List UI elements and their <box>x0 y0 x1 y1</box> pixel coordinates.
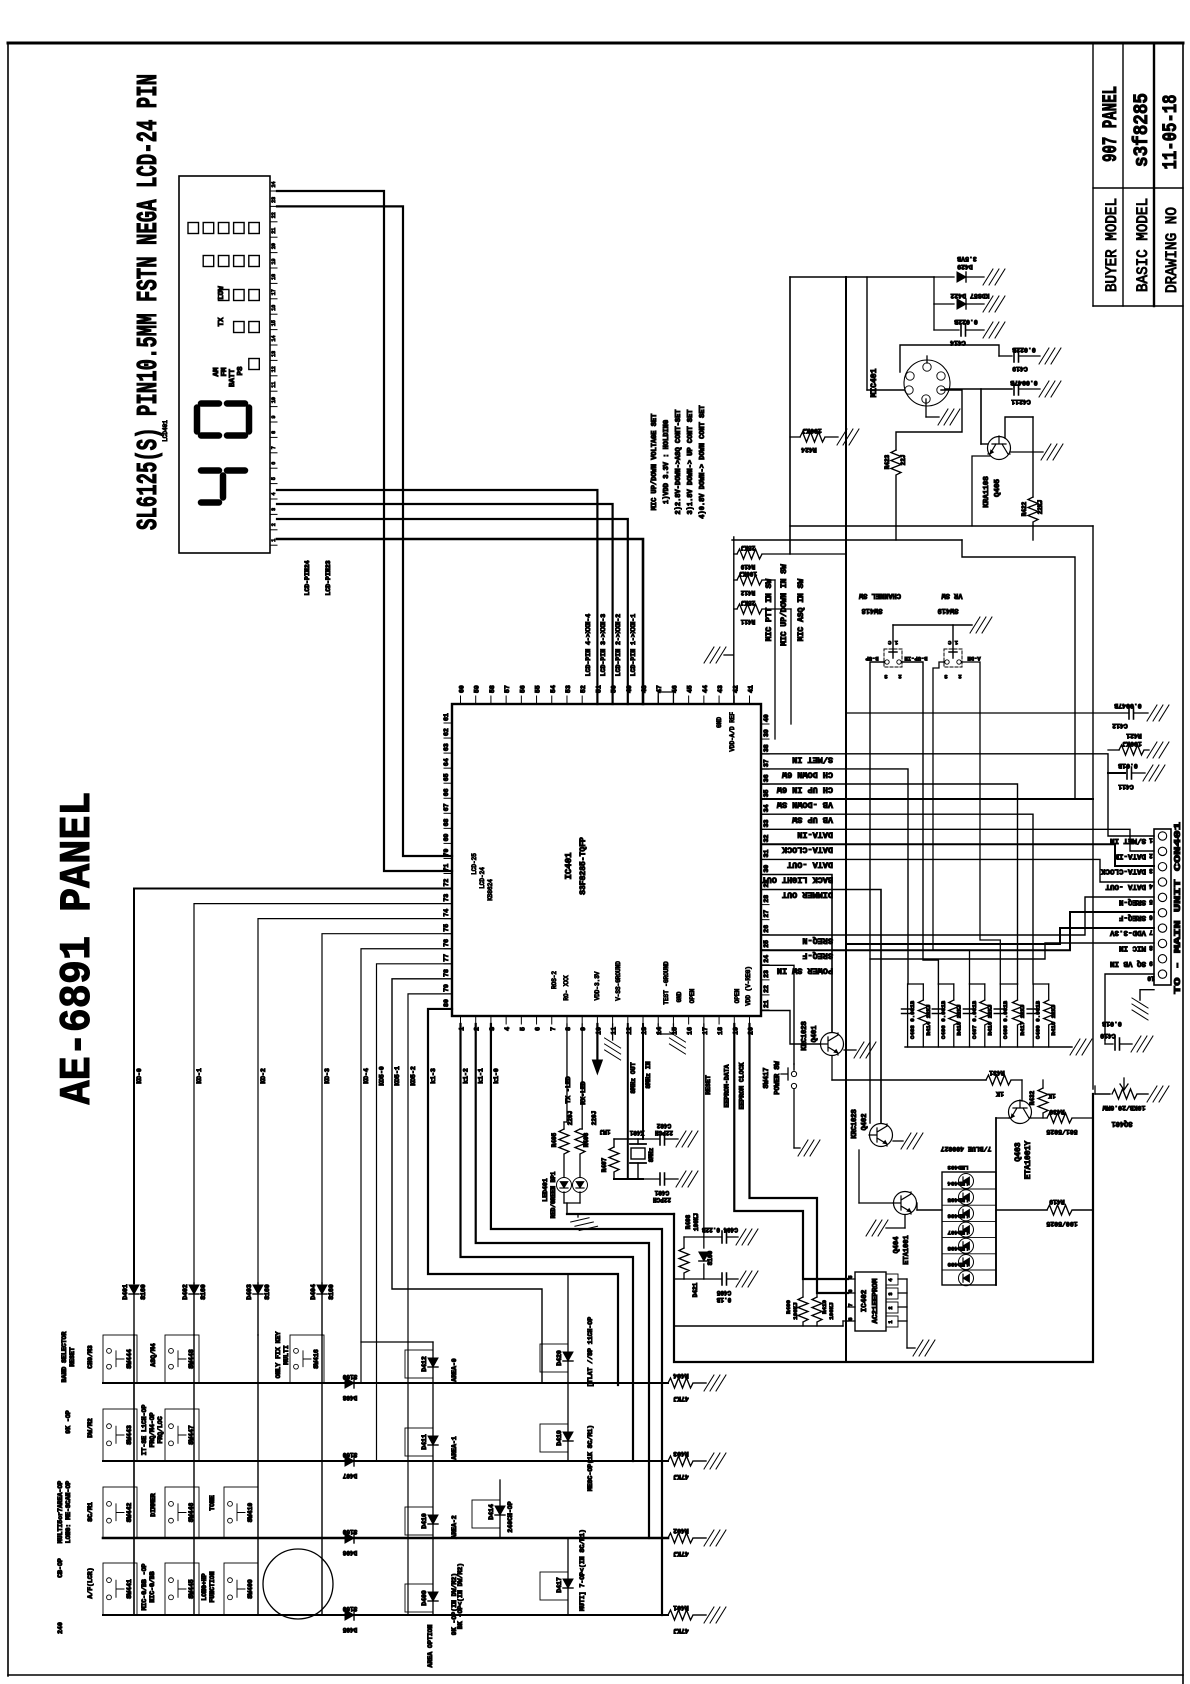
svg-text:24: 24 <box>763 955 770 963</box>
svg-text:100KJ: 100KJ <box>792 1302 799 1319</box>
wire net KO-4 <box>361 949 452 1383</box>
ground <box>983 322 1005 338</box>
svg-text:C401: C401 <box>654 1189 669 1196</box>
title text: buyer model 907 PANEL <box>1100 86 1123 292</box>
svg-text:VDD-3.3V: VDD-3.3V <box>594 971 601 1000</box>
resistor R409 100KJ <box>785 1279 808 1326</box>
labels MIC switch nets <box>765 564 806 646</box>
svg-text:59: 59 <box>474 685 481 693</box>
wire LCD segment line 3 <box>277 519 628 704</box>
LED LED401 RED/GREEN <box>542 1171 674 1218</box>
svg-text:R431: R431 <box>989 1069 1005 1076</box>
svg-text:D407: D407 <box>342 1472 357 1479</box>
svg-text:22J: 22J <box>900 455 907 466</box>
transistor Q402 KRC102S <box>851 1109 903 1146</box>
transistor Q401 KRC102S <box>801 1021 856 1080</box>
svg-text:D421: D421 <box>692 1282 699 1297</box>
svg-text:C408 0.001B: C408 0.001B <box>1002 1000 1009 1039</box>
svg-text:R421: R421 <box>1126 732 1142 739</box>
svg-text:4)0.8V DOWN-> DOWN CONT SET: 4)0.8V DOWN-> DOWN CONT SET <box>699 405 707 518</box>
svg-text:8: 8 <box>271 431 277 434</box>
svg-text:B-UP-IN: B-UP-IN <box>904 655 927 662</box>
svg-text:MIC UP/DOWN VOLTAGE SET: MIC UP/DOWN VOLTAGE SET <box>651 414 659 511</box>
svg-text:S160: S160 <box>342 1528 357 1535</box>
wire SREQ-F <box>761 912 1154 961</box>
svg-text:18: 18 <box>271 274 277 280</box>
ground pin11 <box>605 1024 621 1060</box>
svg-text:RESET: RESET <box>705 1075 712 1095</box>
svg-text:BAND SELECTOR: BAND SELECTOR <box>61 1332 68 1383</box>
svg-text:2: 2 <box>958 673 961 680</box>
svg-text:R414 22KJ: R414 22KJ <box>925 1004 932 1035</box>
resistor R419b 100/5025 <box>1046 1198 1093 1227</box>
svg-text:C406 0.001B: C406 0.001B <box>940 1000 947 1039</box>
diode D421 S160 <box>684 1237 714 1297</box>
svg-text:R401: R401 <box>673 1604 689 1611</box>
svg-text:LONG: ME-SCAN-OP: LONG: ME-SCAN-OP <box>65 1481 72 1544</box>
svg-text:67: 67 <box>443 803 450 811</box>
svg-text:100KJ: 100KJ <box>802 427 822 434</box>
ground <box>970 617 992 633</box>
svg-text:20: 20 <box>271 243 277 249</box>
ground <box>704 1375 726 1391</box>
svg-text:FM: FM <box>221 367 229 377</box>
svg-text:10KB/20.6MW: 10KB/20.6MW <box>1102 1104 1145 1111</box>
capacitor C402 22PCH <box>641 1122 678 1145</box>
svg-text:9K -OP: 9K -OP <box>65 1410 72 1434</box>
svg-text:R419: R419 <box>1049 1198 1065 1205</box>
svg-text:6: 6 <box>848 1289 854 1292</box>
svg-text:Q404: Q404 <box>893 1237 901 1254</box>
svg-text:R432: R432 <box>1029 1090 1036 1105</box>
svg-text:D404: D404 <box>310 1284 317 1300</box>
IC401 bottom pin stubs and numbers 1-20 <box>459 1016 755 1035</box>
svg-text:KO-0: KO-0 <box>136 1068 143 1084</box>
svg-text:56: 56 <box>519 685 526 693</box>
resistor R432 1K <box>1029 1080 1056 1118</box>
svg-text:SREQ-F: SREQ-F <box>1118 913 1146 921</box>
svg-text:TEST -GROUND: TEST -GROUND <box>663 961 670 1005</box>
svg-text:1: 1 <box>1149 837 1153 844</box>
switch SW444 <box>103 1335 137 1383</box>
svg-text:3: 3 <box>888 1292 894 1295</box>
svg-text:IT-SE L1CH-OP: IT-SE L1CH-OP <box>141 1405 148 1456</box>
svg-text:KDS57 D422: KDS57 D422 <box>950 292 989 299</box>
diode D406 S160 <box>342 1528 357 1556</box>
ground <box>798 1140 820 1156</box>
title text: drawing no 11-05-18 <box>1160 95 1183 294</box>
svg-text:BK -OP<(IN DW/M2): BK -OP<(IN DW/M2) <box>457 1563 464 1629</box>
svg-text:s3f8285: s3f8285 <box>1131 93 1154 167</box>
svg-text:7: 7 <box>848 1303 854 1306</box>
svg-text:KRC102S: KRC102S <box>851 1109 859 1138</box>
wire DIMMER OUT <box>761 890 881 1124</box>
svg-text:11-05-18: 11-05-18 <box>1160 95 1183 170</box>
microphone MIC401 <box>867 277 999 417</box>
wire option diode column x568 <box>567 1274 569 1461</box>
svg-text:S160: S160 <box>140 1284 147 1300</box>
svg-text:10: 10 <box>271 397 277 403</box>
svg-text:C405: C405 <box>716 1289 731 1296</box>
resistor R404 47KJ <box>668 1372 706 1402</box>
svg-text:35: 35 <box>763 789 770 797</box>
wire LCD segment line 2 <box>277 504 613 704</box>
svg-text:1K: 1K <box>996 1090 1004 1097</box>
svg-text:MESC-OP(1K SC/M1): MESC-OP(1K SC/M1) <box>587 1425 594 1491</box>
svg-text:6: 6 <box>1149 913 1153 920</box>
svg-text:RESET: RESET <box>69 1347 76 1367</box>
svg-text:11: 11 <box>271 382 277 388</box>
svg-text:3.5VB: 3.5VB <box>957 255 977 262</box>
svg-text:DRAWING NO: DRAWING NO <box>1163 207 1181 293</box>
switch SW410 <box>224 1487 258 1538</box>
svg-text:NIC-G/BB: NIC-G/BB <box>149 1571 156 1602</box>
diode D407 S160 <box>342 1451 357 1479</box>
diode D429 3.5VB <box>934 255 984 282</box>
svg-text:KRC102S: KRC102S <box>801 1021 809 1050</box>
diode D401 S160 <box>122 1283 147 1335</box>
ground <box>736 1271 758 1287</box>
svg-text:C407 0.001B: C407 0.001B <box>971 1000 978 1039</box>
svg-text:SREQ-F: SREQ-F <box>802 951 833 961</box>
svg-text:10: 10 <box>1147 975 1155 982</box>
svg-text:15: 15 <box>271 320 277 326</box>
title block table <box>1093 43 1183 306</box>
diode D402 S160 <box>182 1283 207 1335</box>
svg-text:5: 5 <box>848 1275 854 1278</box>
ground pins 14-15 <box>658 1024 685 1054</box>
svg-text:R406: R406 <box>583 1132 590 1147</box>
svg-text:D412: D412 <box>421 1356 428 1372</box>
svg-text:LCD-PIN 2->XXN-2: LCD-PIN 2->XXN-2 <box>615 614 622 677</box>
labels LCD-PIN->XXN nets <box>585 614 637 677</box>
svg-text:1 C: 1 C <box>887 639 898 646</box>
svg-text:8MHz: 8MHz <box>648 1147 655 1162</box>
diode D422 KDS57 <box>934 277 990 309</box>
svg-text:33: 33 <box>763 819 770 827</box>
ground <box>704 647 734 663</box>
svg-text:KO5-1: KO5-1 <box>394 1066 401 1086</box>
svg-text:7: 7 <box>550 1027 557 1031</box>
svg-text:S160: S160 <box>707 1250 714 1265</box>
svg-text:LCD-24: LCD-24 <box>479 867 486 889</box>
svg-text:60: 60 <box>459 685 466 693</box>
svg-text:41: 41 <box>747 685 754 693</box>
svg-text:POWER SW IN: POWER SW IN <box>777 966 833 976</box>
svg-text:EEPROM CLOCK: EEPROM CLOCK <box>738 1062 745 1109</box>
svg-text:R418 22KJ: R418 22KJ <box>1050 1004 1057 1035</box>
svg-text:D405: D405 <box>342 1626 357 1633</box>
IC IC402 AC21EEPROM <box>848 1272 915 1348</box>
IC401 internal pin function labels <box>471 712 752 1006</box>
resistor R410 100KJ <box>812 1293 835 1326</box>
svg-text:SW443: SW443 <box>126 1425 133 1445</box>
capacitor C410 0.01B <box>1100 1020 1132 1050</box>
svg-text:9: 9 <box>271 415 277 418</box>
svg-text:R412: R412 <box>740 589 755 596</box>
svg-text:C403 0.001B: C403 0.001B <box>909 1000 916 1039</box>
svg-text:65: 65 <box>443 773 450 781</box>
svg-text:TX -LED: TX -LED <box>565 1076 572 1103</box>
svg-text:907 PANEL: 907 PANEL <box>1100 86 1123 162</box>
switch SW448 <box>165 1335 199 1383</box>
svg-text:TX: TX <box>218 317 226 327</box>
svg-text:75: 75 <box>443 924 450 932</box>
resistor R402 47KJ <box>668 1527 706 1557</box>
wire net KO-3 <box>322 934 452 1283</box>
svg-text:TONE: TONE <box>209 1495 216 1511</box>
resistor R405 220J <box>551 1024 574 1177</box>
svg-text:S160: S160 <box>328 1284 335 1300</box>
svg-text:7/BLUE 400027: 7/BLUE 400027 <box>941 1145 992 1152</box>
svg-text:BACK LIGHT OUT: BACK LIGHT OUT <box>762 875 833 885</box>
svg-text:22PCH: 22PCH <box>653 1196 671 1203</box>
svg-text:25: 25 <box>763 940 770 948</box>
svg-text:S160: S160 <box>264 1284 271 1300</box>
connector CON401 TO-MAIN UNIT <box>1100 821 1183 994</box>
svg-text:220J: 220J <box>591 1111 598 1125</box>
svg-text:AREA OPTION: AREA OPTION <box>427 1624 434 1667</box>
svg-text:DW/M2: DW/M2 <box>87 1418 94 1438</box>
IC401 top pin stubs and numbers 60-41 <box>459 685 755 704</box>
transistor Q404 ETA1001 <box>859 1150 917 1265</box>
wire net k1-0 <box>491 1024 662 1615</box>
svg-text:BATT: BATT <box>229 369 237 388</box>
svg-text:LED409: LED409 <box>947 1261 968 1268</box>
svg-text:S160: S160 <box>342 1605 357 1612</box>
svg-text:S160: S160 <box>200 1284 207 1300</box>
svg-text:21: 21 <box>271 228 277 234</box>
wire mic divider bus <box>732 526 1093 1089</box>
wire eeprom ground bus <box>674 1321 848 1326</box>
svg-text:LED408: LED408 <box>947 1245 968 1252</box>
svg-text:AREA-2: AREA-2 <box>451 1515 458 1539</box>
svg-text:25KJ: 25KJ <box>741 599 755 606</box>
svg-text:R403: R403 <box>673 1450 689 1457</box>
diode D409 <box>405 1573 458 1635</box>
ground <box>676 1131 698 1147</box>
diode D410 <box>405 1507 458 1539</box>
svg-text:GND: GND <box>716 717 723 728</box>
svg-text:C411: C411 <box>1118 783 1134 790</box>
switch SW445 <box>165 1563 199 1615</box>
wire DATA-CLOCK <box>761 844 1154 866</box>
LCD annunciator segments <box>188 223 259 370</box>
svg-text:37: 37 <box>763 759 770 767</box>
svg-text:68: 68 <box>443 818 450 826</box>
ground <box>983 269 1005 285</box>
svg-text:SW410: SW410 <box>247 1503 254 1523</box>
svg-text:7: 7 <box>1149 929 1153 936</box>
svg-text:5: 5 <box>1149 898 1153 905</box>
wire net KO5-2 <box>408 994 452 1615</box>
svg-text:BUYER MODEL: BUYER MODEL <box>1103 198 1121 292</box>
svg-text:12: 12 <box>271 366 277 372</box>
capacitor C404 0.22B <box>702 1226 738 1243</box>
svg-text:240: 240 <box>57 1622 64 1634</box>
wire bottom power loop <box>674 1094 1093 1362</box>
wire LCD pin2 to IC pin70 <box>277 206 452 856</box>
svg-text:FRQ/M4-OP: FRQ/M4-OP <box>149 1412 156 1447</box>
svg-text:SW416: SW416 <box>313 1349 320 1369</box>
svg-text:44: 44 <box>702 685 709 693</box>
svg-text:36: 36 <box>763 774 770 782</box>
svg-text:OPEN: OPEN <box>734 988 741 1003</box>
wire net KO-1 <box>194 904 452 1283</box>
svg-text:D402: D402 <box>182 1284 189 1300</box>
svg-text:28: 28 <box>763 895 770 903</box>
IC401 right pin stubs and numbers 40-21 <box>761 714 770 1010</box>
wire Q404 collector line <box>917 1203 1047 1210</box>
wire pin21 to Q401 base <box>761 1011 820 1045</box>
ground <box>1147 705 1169 721</box>
capacitor C411 0.01B <box>1108 762 1145 790</box>
svg-text:0.0047B: 0.0047B <box>1010 379 1037 386</box>
wire key row 2 <box>103 1460 668 1462</box>
svg-text:S/MET IN: S/MET IN <box>792 755 833 765</box>
IC401 left pin stubs and numbers 61-80 <box>443 713 452 1009</box>
svg-text:DATA -OUT: DATA -OUT <box>787 860 833 870</box>
svg-text:2: 2 <box>898 673 901 680</box>
svg-text:R422: R422 <box>1021 501 1028 516</box>
wire key row 1 <box>103 1382 668 1384</box>
svg-text:DATA-IN: DATA-IN <box>797 830 833 840</box>
capacitor C401 22PCH <box>643 1173 678 1203</box>
svg-text:2: 2 <box>888 1306 894 1309</box>
svg-text:[TLAT //SP 11CH-OP: [TLAT //SP 11CH-OP <box>587 1317 594 1387</box>
wire LED driver rail y1080 <box>832 1079 986 1081</box>
svg-text:LED401: LED401 <box>542 1178 549 1202</box>
diode D412 <box>405 1350 458 1382</box>
resistor R406 220J <box>575 1024 598 1177</box>
svg-text:DIMMER OUT: DIMMER OUT <box>782 890 833 900</box>
svg-text:1K: 1K <box>1048 1092 1056 1099</box>
svg-text:45: 45 <box>687 685 694 693</box>
svg-text:561/5025: 561/5025 <box>1046 1128 1077 1135</box>
svg-text:SW419: SW419 <box>937 606 958 614</box>
wire key row 3 <box>103 1537 668 1540</box>
svg-text:2: 2 <box>271 523 277 526</box>
diode D403 S160 <box>246 1283 271 1335</box>
svg-text:6: 6 <box>535 1027 542 1031</box>
svg-text:PS: PS <box>237 366 245 376</box>
capacitor C412 0.0047B <box>846 702 1148 729</box>
svg-text:VDD (V-REG): VDD (V-REG) <box>745 966 752 1006</box>
svg-text:FUNCTION: FUNCTION <box>209 1571 216 1602</box>
switch SW416 <box>290 1335 324 1383</box>
svg-text:D401: D401 <box>122 1284 129 1300</box>
svg-text:R416 22KJ: R416 22KJ <box>986 1004 993 1035</box>
svg-text:64: 64 <box>443 758 450 766</box>
svg-text:D419: D419 <box>556 1430 563 1446</box>
wire CH UP IN SW <box>761 784 1018 984</box>
switch SW418 CHANNEL SW <box>858 591 927 680</box>
svg-text:4: 4 <box>271 492 277 495</box>
ground <box>704 1530 726 1546</box>
svg-text:47KJ: 47KJ <box>673 1473 689 1480</box>
svg-text:VDD-3.3V: VDD-3.3V <box>1109 928 1146 936</box>
ground <box>704 1607 726 1623</box>
wire DATA-IN <box>761 829 1154 851</box>
diode D420 <box>540 1344 573 1372</box>
svg-text:R417 22KJ: R417 22KJ <box>1019 1004 1026 1035</box>
svg-text:SW441: SW441 <box>126 1579 133 1599</box>
svg-text:55: 55 <box>535 685 542 693</box>
wire EEPROM-DATA <box>723 1024 848 1279</box>
ground <box>1039 348 1061 364</box>
svg-text:S160: S160 <box>342 1451 357 1458</box>
svg-text:AC21EEPROM: AC21EEPROM <box>872 1278 880 1324</box>
resistor R407 1MJ <box>600 1128 643 1179</box>
switch SW409 <box>224 1563 258 1615</box>
svg-text:D417: D417 <box>556 1577 563 1593</box>
wire net k1-3 <box>428 1009 618 1385</box>
switch SW419 VR SW <box>937 591 980 680</box>
resistor R423 22J <box>884 390 962 540</box>
wire 8MHz OUT <box>628 1024 637 1179</box>
svg-text:4: 4 <box>504 1027 511 1031</box>
svg-text:R405: R405 <box>551 1132 558 1147</box>
svg-text:C4211: C4211 <box>1011 398 1031 405</box>
resistor R408 100KJ <box>679 1213 704 1279</box>
svg-text:CH UP IN 6W: CH UP IN 6W <box>776 785 833 795</box>
capacitor C403 0.001B / resistor R414 22KJ <box>902 984 932 1047</box>
svg-text:SREQ-N: SREQ-N <box>802 936 833 946</box>
switch SW441 <box>103 1563 137 1615</box>
resistor R430 561/5025 <box>1046 1108 1093 1135</box>
svg-text:8MHz IN: 8MHz IN <box>645 1061 652 1088</box>
resistor R403 47KJ <box>668 1450 706 1480</box>
svg-text:72: 72 <box>443 879 450 887</box>
switch SW417 POWER SW <box>763 1060 800 1148</box>
svg-text:23: 23 <box>271 197 277 203</box>
wire net KO-0 <box>134 889 452 1283</box>
svg-text:S/MET IN: S/MET IN <box>1110 836 1146 844</box>
svg-text:R411: R411 <box>740 618 755 625</box>
svg-text:LED404: LED404 <box>947 1180 968 1187</box>
potentiometer SQ401 <box>1095 1078 1148 1127</box>
svg-text:KO-3: KO-3 <box>324 1068 331 1084</box>
capacitor C409 0.001B / resistor R418 22KJ <box>1027 984 1057 1047</box>
svg-text:DIMMER: DIMMER <box>150 1493 157 1517</box>
resistor R422 22KJ <box>1021 417 1044 540</box>
LCD seven-segment digit 0 <box>197 404 249 436</box>
svg-text:100KJ: 100KJ <box>739 570 757 577</box>
svg-text:16: 16 <box>687 1027 694 1035</box>
resistor R401 47KJ <box>668 1604 706 1634</box>
svg-text:73: 73 <box>443 894 450 902</box>
wire RC bank ground bus <box>905 1046 1072 1048</box>
diode D419 <box>540 1424 573 1452</box>
svg-text:AREA-0: AREA-0 <box>451 1358 458 1382</box>
wire POWER SW IN <box>761 965 833 1064</box>
diode D404 S160 <box>310 1283 335 1335</box>
svg-text:ETA1001Y: ETA1001Y <box>1024 1141 1033 1180</box>
svg-text:R419: R419 <box>740 563 755 570</box>
LCD labels AM FM BATT PS <box>213 366 245 387</box>
ground <box>676 1171 698 1187</box>
diode D417 <box>540 1538 573 1615</box>
svg-text:D403: D403 <box>246 1284 253 1300</box>
svg-text:MIC-G/BB -OP: MIC-G/BB -OP <box>141 1563 148 1610</box>
LCD seven-segment digit 4 <box>201 471 245 503</box>
svg-text:2)2.8V-DOWN->ASQ CONT-SET: 2)2.8V-DOWN->ASQ CONT-SET <box>675 409 683 514</box>
svg-text:FRQ/LOC: FRQ/LOC <box>157 1416 164 1443</box>
key matrix function labels <box>57 1331 290 1633</box>
svg-text:KO-2: KO-2 <box>260 1068 267 1084</box>
ground <box>913 1340 935 1356</box>
LCD pin stubs 1-24 <box>270 181 277 545</box>
